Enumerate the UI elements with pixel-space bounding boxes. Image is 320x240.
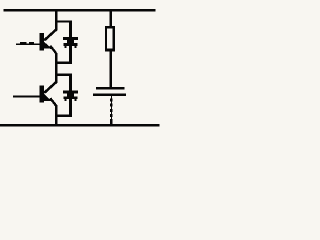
transistor Q2 base lead — [13, 95, 40, 97]
wire: top DC bus — [4, 9, 156, 12]
transistor Q1 base bar — [40, 33, 45, 50]
wire: D1 lower lead — [69, 46, 72, 64]
transistor Q1 emitter arrow — [44, 41, 52, 48]
wire: resistor R to capacitor C — [110, 51, 113, 88]
capacitor C top plate — [96, 87, 124, 90]
wire: Q2 emitter to bottom bus — [55, 105, 58, 125]
transistor Q2 base bar — [40, 85, 45, 102]
wire: bottom link from emitter column to D2 anode — [55, 115, 72, 117]
transistor Q1 base lead dash 1 — [20, 42, 27, 44]
wire: phase node vertical (Q1 emitter to Q2 collector) — [55, 53, 58, 83]
transistor Q1 collector diagonal — [44, 29, 56, 40]
wire: top bus to resistor R — [110, 10, 113, 27]
wire: lead dash c — [110, 109, 112, 112]
wire: lead dash a — [110, 98, 112, 101]
wire: capacitor C to bottom bus (broken/dotted lead) — [111, 96, 112, 125]
wire: top link to diode D1 — [55, 20, 72, 22]
wire: mid link from phase node to D1 anode — [55, 61, 72, 63]
wire: lead solid tail — [110, 119, 112, 125]
transistor Q1 base lead — [16, 43, 40, 44]
capacitor C bottom plate — [93, 94, 126, 97]
transistor Q2 emitter arrow — [44, 94, 52, 101]
diode D2 cathode bar — [63, 90, 78, 93]
diode D1 cathode bar — [63, 37, 78, 40]
wire: collector drop from top bus to Q1 — [55, 10, 58, 31]
wire: lead dash d — [110, 114, 112, 117]
transistor Q2 emitter line — [49, 98, 57, 107]
wire: bottom DC bus — [0, 124, 160, 127]
transistor Q1 emitter line — [49, 45, 57, 54]
wire: lead dash b — [110, 104, 112, 107]
diode D1 triangle — [65, 40, 77, 46]
wire: D2 upper lead — [69, 74, 72, 92]
wire: D2 lower lead — [69, 99, 72, 117]
transistor Q2 collector diagonal — [44, 82, 56, 93]
resistor R body — [105, 26, 115, 52]
transistor Q1 base lead dash 2 — [29, 42, 34, 44]
diode D2 triangle — [65, 93, 77, 99]
wire: mid link from phase node to D2 cathode — [55, 74, 72, 76]
wire: D1 upper lead — [69, 20, 72, 38]
